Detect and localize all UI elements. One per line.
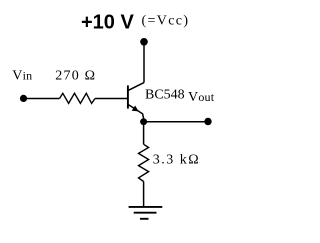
wire resistor R2 to ground: [143, 182, 145, 207]
svg-text:3.3 kΩ: 3.3 kΩ: [153, 153, 200, 168]
ground: [129, 207, 163, 219]
node Vcc dot: [140, 38, 148, 46]
wire Vcc to collector: [143, 42, 145, 83]
wire resistor R1 to base: [95, 98, 128, 100]
svg-text:(=Vcc): (=Vcc): [142, 13, 190, 28]
resistor R2 3.3 kohm: [139, 144, 149, 181]
node Vin dot: [20, 95, 27, 102]
transistor BC548: [128, 83, 144, 119]
wire emitter node to resistor R2: [143, 122, 145, 145]
svg-text:+10 V: +10 V: [81, 12, 134, 34]
resistor R1 270 ohm: [60, 93, 96, 103]
wire Vin to resistor R1: [24, 98, 60, 100]
svg-text:Vin: Vin: [12, 69, 32, 84]
svg-text:270 Ω: 270 Ω: [55, 69, 96, 84]
node emitter junction dot: [140, 118, 147, 125]
node Vout dot: [204, 118, 211, 125]
svg-text:Vout: Vout: [188, 90, 215, 105]
svg-text:BC548: BC548: [145, 88, 185, 103]
wire emitter node to Vout: [144, 121, 208, 123]
